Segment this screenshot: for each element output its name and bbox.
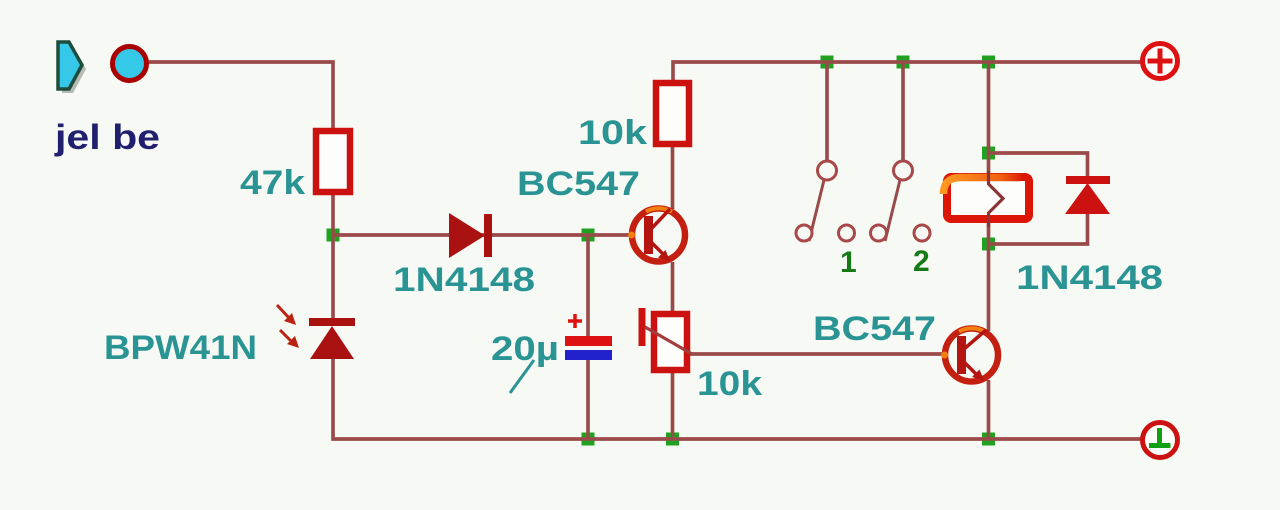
plus supply terminal [1143,44,1178,79]
ground terminal [1143,423,1178,458]
input arrow icon shadow [62,46,86,93]
node junction (cap bottom rail) [582,433,595,446]
svg-text:1: 1 [840,246,857,279]
svg-text:1N4148: 1N4148 [1016,259,1163,297]
svg-text:BC547: BC547 [517,165,640,203]
node junction (relay branch top) [982,56,995,69]
switch S1 [796,161,855,241]
trimmer P1 10k [639,308,693,370]
node junction (cap top / base row) [582,229,595,242]
wire input to 47k top corner [146,62,333,129]
node junction (47k bottom / base row) [327,229,340,242]
wire relay bottom to Q2 collector [987,221,990,331]
wire switch 2 drop [901,62,904,161]
svg-text:BPW41N: BPW41N [104,329,257,367]
wire Q1 emitter to trimmer top [671,262,674,312]
wire relay top to flyback diode cathode [989,153,1088,177]
svg-text:BC547: BC547 [813,310,936,348]
wire trimmer bottom to bottom rail [671,373,674,439]
input terminal circle [113,47,147,81]
node junction (switch 1 top) [821,56,834,69]
node junction (trimmer bottom rail) [666,433,679,446]
transistor Q1 BC547 [628,208,685,261]
wire Q2 emitter to bottom rail [987,380,990,439]
wire relay branch drop [987,62,990,176]
photodiode BPW41N [277,305,355,359]
wire cap top branch [586,235,589,337]
diode D1 1N4148 [449,213,492,258]
node junction (relay bottom) [982,238,995,251]
mu tail [510,360,534,393]
node junction (Q2 emitter rail) [982,433,995,446]
svg-text:20µ: 20µ [491,330,559,368]
svg-text:2: 2 [913,245,930,278]
svg-text:1N4148: 1N4148 [393,261,535,299]
node junction (relay top) [982,147,995,160]
svg-text:10k: 10k [578,114,647,152]
diode D2 1N4148 flyback [1065,176,1110,214]
node junction (switch 2 top) [897,56,910,69]
wire photodiode anode to bottom rail corner [333,358,1141,439]
wire trimmer wiper to Q2 base [690,352,948,355]
resistor R1 47k [316,131,350,192]
wire 47k bottom to photodiode [331,194,334,319]
wire base row node to Q1 base [333,233,633,236]
wire flyback diode anode to relay bottom [989,213,1088,244]
switch S2 [871,161,931,241]
svg-text:47k: 47k [240,164,305,202]
svg-text:jel be: jel be [54,118,160,157]
wire switch 1 drop [825,62,828,161]
wire top rail from 10k to plus terminal [673,62,1141,81]
transistor Q2 BC547 [941,328,998,381]
wire overlay through junctions [146,62,1141,439]
relay K1 coil [944,171,1030,227]
input arrow icon [58,42,82,89]
svg-text:10k: 10k [697,365,762,403]
wire net [146,62,1141,439]
wire cap bottom branch [586,359,589,439]
resistor R2 10k [656,83,689,144]
wire 10k bottom to Q1 collector [671,147,674,209]
capacitor C1 20u [565,314,612,360]
